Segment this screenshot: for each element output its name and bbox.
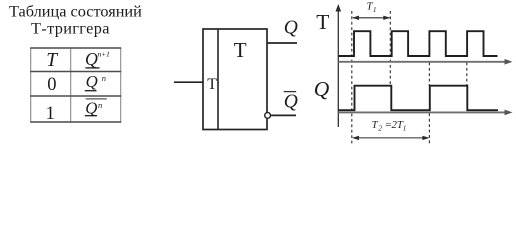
svg-text:0: 0 [47, 75, 56, 95]
time axis T arrowhead [505, 59, 513, 65]
truth table outer border [30, 48, 121, 122]
svg-text:n+1: n+1 [98, 50, 111, 59]
svg-text:Q: Q [85, 49, 98, 69]
wire output Q [267, 42, 297, 44]
time axis Q arrowhead [505, 110, 513, 116]
dashed guide line 3 lower [428, 108, 430, 144]
dimension arrowhead T1 right [383, 16, 390, 20]
T flip-flop control column divider [217, 29, 219, 130]
dimension arrowhead T2 right [422, 136, 429, 140]
svg-text:T: T [234, 38, 247, 62]
table top border [30, 47, 121, 49]
svg-text:1: 1 [46, 104, 55, 124]
inversion bubble [265, 113, 271, 119]
table cell NOT Q^n row3 [85, 98, 107, 117]
time axis Q [338, 111, 508, 113]
dashed guide line 1 [351, 11, 353, 144]
svg-text:n: n [98, 100, 102, 110]
waveform T clock [338, 31, 497, 56]
dimension arrowhead T2 left [352, 136, 359, 140]
vertical axis arrowhead [336, 4, 342, 12]
svg-text:Т-триггера: Т-триггера [31, 18, 110, 37]
label NOT Q output overline [284, 91, 297, 93]
waveform Q [338, 86, 498, 111]
wire input T [174, 81, 203, 83]
table column divider [70, 48, 72, 122]
svg-text:Q: Q [314, 77, 330, 101]
svg-text:T: T [316, 10, 329, 34]
T flip-flop U1 body [203, 29, 267, 130]
svg-text:2: 2 [378, 124, 382, 132]
dimension arrowhead T1 left [352, 16, 359, 20]
svg-text:Q: Q [85, 98, 97, 117]
table row line 2 [30, 95, 121, 97]
svg-text:n: n [102, 73, 106, 83]
dimension arrow T1 [353, 17, 389, 19]
dashed guide line 3 upper [428, 63, 430, 86]
svg-text:1: 1 [403, 124, 407, 132]
dimension arrow T2 [353, 137, 428, 139]
svg-text:Q: Q [284, 91, 298, 112]
svg-text:T: T [207, 76, 217, 93]
svg-text:T: T [46, 50, 58, 71]
dashed guide line 4 [466, 63, 468, 86]
vertical axis with arrow [337, 9, 339, 127]
table bottom border [30, 121, 121, 123]
dashed guide line 2 [389, 11, 391, 86]
svg-text:Q: Q [284, 18, 298, 39]
time axis T [338, 61, 508, 63]
wire output NOT Q [271, 114, 297, 116]
svg-text:Q: Q [86, 72, 98, 91]
table cell Q^n row2 [85, 72, 106, 91]
table row line 1 [30, 71, 121, 73]
table cell Q^(n+1) [85, 49, 110, 69]
svg-text:1: 1 [373, 6, 377, 14]
